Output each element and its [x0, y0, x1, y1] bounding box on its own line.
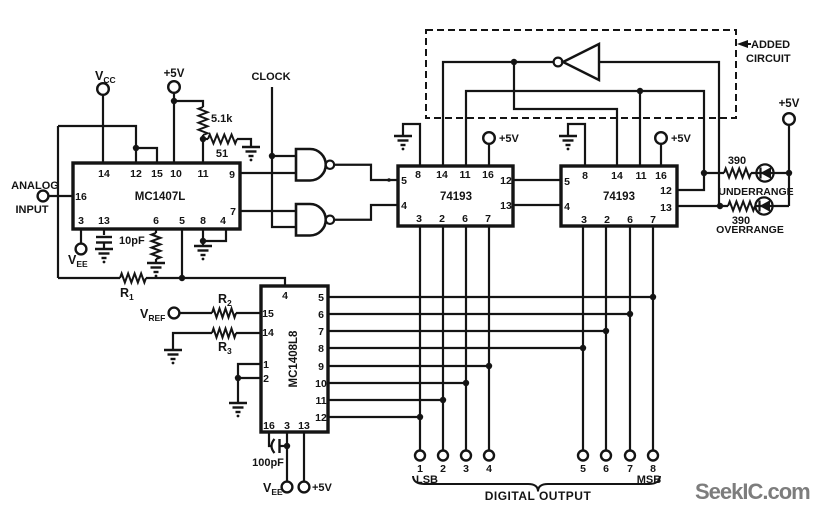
- svg-text:5: 5: [179, 215, 185, 227]
- wire U4 pin 13 row: [677, 205, 728, 207]
- svg-text:14: 14: [436, 169, 448, 181]
- wire inverter input net: [443, 62, 553, 166]
- svg-text:CIRCUIT: CIRCUIT: [746, 53, 791, 65]
- node pin 8: [200, 238, 206, 244]
- svg-text:5: 5: [401, 175, 407, 187]
- svg-text:390: 390: [728, 155, 746, 167]
- svg-text:7: 7: [650, 214, 656, 226]
- svg-text:7: 7: [485, 213, 491, 225]
- wire 390 to LED1: [751, 172, 789, 174]
- wire pin 1: [238, 364, 261, 378]
- wire +5V to 5.1k: [174, 101, 203, 107]
- wire U3 pin 13 to U4 pin 4: [513, 204, 561, 206]
- node bit 5: [580, 345, 586, 351]
- svg-text:2: 2: [604, 214, 610, 226]
- terminal output 7: [625, 451, 635, 461]
- wire NAND1 output: [335, 165, 398, 180]
- svg-text:13: 13: [298, 420, 310, 432]
- wire pin 5 down: [181, 229, 183, 278]
- DAC U2 MC1408L8 box: [261, 286, 328, 432]
- added circuit arrow: [737, 40, 748, 48]
- svg-text:16: 16: [263, 420, 275, 432]
- wire +5V to pin 10: [173, 93, 175, 163]
- svg-text:1: 1: [263, 359, 269, 371]
- svg-text:15: 15: [151, 168, 163, 180]
- node pins12/15: [133, 145, 139, 151]
- wire DAC output bit 5: [328, 347, 583, 349]
- svg-text:2: 2: [439, 213, 445, 225]
- svg-text:74193: 74193: [603, 191, 635, 203]
- node borrow/U4 pin 11: [637, 88, 643, 94]
- wire +5V to U3 pin 16: [488, 144, 490, 166]
- wire pin 3 to VEE: [80, 229, 82, 244]
- terminal output 2: [438, 451, 448, 461]
- wire pin 8 down: [202, 229, 204, 246]
- wire output column 1: [419, 226, 421, 450]
- wire DAC output bit 1: [328, 416, 420, 418]
- added circuit dashed box: [426, 30, 736, 118]
- wire ground to U4 pin 8: [568, 124, 585, 166]
- svg-text:3: 3: [416, 213, 422, 225]
- wire resistor to ground: [155, 259, 157, 263]
- node +5V branch: [171, 98, 177, 104]
- ground (pin 8): [194, 246, 212, 255]
- svg-text:100pF: 100pF: [252, 457, 284, 469]
- svg-text:51: 51: [216, 148, 228, 160]
- op-amp U1 MC1407L box: [73, 163, 240, 229]
- svg-text:+5V: +5V: [671, 133, 692, 145]
- svg-text:2: 2: [263, 373, 269, 385]
- svg-text:8: 8: [200, 215, 206, 227]
- svg-text:13: 13: [98, 215, 110, 227]
- svg-text:MC1407L: MC1407L: [135, 191, 186, 203]
- wire output column 4: [488, 226, 490, 450]
- wire underrange row: [704, 172, 724, 174]
- svg-text:12: 12: [660, 185, 672, 197]
- wire +5V rail: [788, 125, 790, 206]
- svg-text:+5V: +5V: [312, 482, 333, 494]
- svg-text:INPUT: INPUT: [16, 204, 49, 216]
- power terminal +5V (bottom): [299, 482, 310, 493]
- svg-text:6: 6: [462, 213, 468, 225]
- svg-text:9: 9: [229, 169, 235, 181]
- node overrange: [717, 203, 723, 209]
- svg-text:11: 11: [315, 395, 326, 407]
- node bit 4: [486, 363, 492, 369]
- resistor (pin 6): [152, 233, 161, 259]
- wire R1 to DAC pin 4: [146, 278, 285, 287]
- svg-text:5: 5: [580, 463, 586, 475]
- wire NAND2 output: [335, 205, 398, 220]
- svg-text:3: 3: [78, 215, 84, 227]
- svg-text:10: 10: [170, 168, 182, 180]
- terminal output 8: [648, 451, 658, 461]
- svg-text:15: 15: [262, 308, 274, 320]
- wire pin 8 to pin 4: [203, 229, 226, 241]
- node NAND1 output mark: [387, 178, 391, 182]
- wire 5.1k to pin 11: [202, 135, 204, 163]
- power terminal VEE (left): [76, 244, 87, 255]
- svg-text:16: 16: [482, 169, 494, 181]
- wire pin 13 to +5V: [303, 432, 305, 482]
- svg-text:6: 6: [318, 309, 324, 321]
- terminal output 4: [484, 451, 494, 461]
- svg-text:OVERRANGE: OVERRANGE: [716, 224, 784, 236]
- svg-text:9: 9: [318, 361, 324, 373]
- power terminal VCC: [97, 83, 109, 95]
- svg-text:UNDERRANGE: UNDERRANGE: [718, 186, 793, 198]
- svg-text:4: 4: [282, 290, 288, 302]
- node clock branch: [269, 153, 275, 159]
- svg-text:12: 12: [315, 412, 327, 424]
- svg-text:8: 8: [318, 343, 324, 355]
- svg-text:6: 6: [627, 214, 633, 226]
- svg-text:8: 8: [582, 170, 588, 182]
- wire U4 pin 12 up: [677, 173, 704, 190]
- wire U1 pin 7 to NAND2: [240, 210, 296, 212]
- svg-text:74193: 74193: [440, 191, 472, 203]
- node bit 2: [440, 397, 446, 403]
- svg-text:5: 5: [564, 176, 570, 188]
- ground (10pF): [95, 249, 113, 258]
- svg-text:7: 7: [318, 326, 324, 338]
- svg-text:13: 13: [660, 202, 672, 214]
- wire borrow net: [466, 91, 704, 173]
- inverter U5: [554, 58, 563, 67]
- capacitor C2 100pF: [272, 439, 275, 453]
- wire VCC to pin 14: [102, 95, 104, 163]
- svg-text:11: 11: [197, 168, 208, 180]
- node pin11/51 junction: [200, 136, 206, 142]
- power terminal +5V (U4): [655, 132, 667, 144]
- terminal output 3: [461, 451, 471, 461]
- ground (R3): [164, 350, 182, 359]
- wire pin 16 down: [269, 432, 271, 446]
- wire 51 to ground: [237, 139, 251, 147]
- svg-text:7: 7: [627, 463, 633, 475]
- node 100pF/pin3: [284, 443, 290, 449]
- svg-text:DIGITAL OUTPUT: DIGITAL OUTPUT: [485, 489, 592, 503]
- wire U3 pin 12 to U4 pin 5: [513, 179, 561, 181]
- wire +5V to U4 pin 16: [660, 144, 662, 166]
- wire output column 7: [629, 226, 631, 450]
- wire output column 6: [605, 226, 607, 450]
- power terminal +5V (top left): [168, 81, 180, 93]
- wire R1 left: [58, 277, 120, 279]
- svg-text:4: 4: [564, 201, 570, 213]
- svg-text:+5V: +5V: [779, 98, 800, 110]
- wire R2 to pin 15: [236, 312, 261, 314]
- counter U3 74193 box: [398, 166, 513, 226]
- node bit 6: [603, 328, 609, 334]
- brace digital output: [413, 476, 660, 492]
- wire pin 6 down: [155, 229, 157, 233]
- resistor R3: [212, 329, 236, 338]
- node LED1/+5V rail: [786, 170, 792, 176]
- wire 390 to LED2: [755, 205, 789, 207]
- ground (51 ohm): [242, 147, 260, 156]
- svg-text:12: 12: [130, 168, 142, 180]
- nand gate G2: [296, 204, 326, 236]
- ground (pin 6): [147, 263, 165, 272]
- svg-text:5.1k: 5.1k: [211, 113, 233, 125]
- power terminal +5V (right): [783, 113, 795, 125]
- svg-text:+5V: +5V: [499, 133, 520, 145]
- svg-text:14: 14: [98, 168, 110, 180]
- svg-text:2: 2: [440, 463, 446, 475]
- ground (U3 pin 8): [394, 136, 412, 145]
- terminal output 1: [415, 451, 425, 461]
- svg-text:MC1408L8: MC1408L8: [288, 330, 300, 387]
- svg-text:3: 3: [284, 420, 290, 432]
- led OVERRANGE: [755, 197, 772, 214]
- terminal output 6: [601, 451, 611, 461]
- wire pins 1-2 to ground: [237, 378, 239, 403]
- terminal output 5: [578, 451, 588, 461]
- node bit 3: [463, 380, 469, 386]
- wire DAC output bit 7: [328, 313, 630, 315]
- svg-text:4: 4: [486, 463, 492, 475]
- wire clock to NAND1: [272, 155, 296, 157]
- wire U1 pin 9 to NAND1: [240, 172, 296, 174]
- ground (U4 pin 8): [559, 136, 577, 145]
- resistor 5.1k: [199, 107, 208, 135]
- nand gate G1: [296, 149, 326, 181]
- analog input terminal: [38, 191, 49, 202]
- svg-text:+5V: +5V: [164, 68, 185, 80]
- svg-text:16: 16: [655, 170, 667, 182]
- wire R3 to pin 14: [236, 332, 261, 334]
- wire DAC output bit 2: [328, 399, 443, 401]
- wire CLOCK vertical: [272, 87, 296, 227]
- svg-text:3: 3: [581, 214, 587, 226]
- resistor 390 (overrange): [728, 202, 755, 211]
- node pin5/R1: [179, 275, 185, 281]
- svg-text:ADDED: ADDED: [751, 39, 790, 51]
- wire DAC output bit 6: [328, 330, 606, 332]
- svg-text:16: 16: [75, 191, 87, 203]
- node inverter input: [511, 59, 517, 65]
- node bit 7: [627, 311, 633, 317]
- svg-text:13: 13: [500, 200, 512, 212]
- counter U4 74193 box: [561, 166, 677, 226]
- wire ground to U3 pin 8: [403, 124, 420, 166]
- svg-text:4: 4: [220, 215, 226, 227]
- wire output column 3: [465, 226, 467, 450]
- wire pins 12/15 net: [58, 126, 136, 163]
- capacitor C1 10pF: [96, 237, 112, 243]
- wire VREF to R2: [179, 312, 212, 314]
- wire to pin 15: [136, 148, 157, 163]
- wire ground to R3: [173, 333, 212, 350]
- svg-text:10pF: 10pF: [119, 235, 145, 247]
- wire inverter output: [599, 62, 719, 206]
- svg-text:11: 11: [459, 169, 470, 181]
- svg-text:3: 3: [463, 463, 469, 475]
- node bit 8: [650, 294, 656, 300]
- power terminal +5V (U3): [483, 132, 495, 144]
- wire carry net: [514, 62, 617, 166]
- led UNDERRANGE: [756, 164, 773, 181]
- svg-text:14: 14: [262, 327, 274, 339]
- svg-text:7: 7: [230, 206, 236, 218]
- wire output column 5: [582, 226, 584, 450]
- svg-text:6: 6: [603, 463, 609, 475]
- svg-text:CLOCK: CLOCK: [251, 71, 290, 83]
- svg-text:8: 8: [415, 169, 421, 181]
- node underrange: [701, 170, 707, 176]
- svg-text:5: 5: [318, 292, 324, 304]
- svg-text:6: 6: [153, 215, 159, 227]
- svg-text:12: 12: [500, 175, 512, 187]
- node pins 1-2: [235, 375, 241, 381]
- wire analog input to pin 16: [48, 195, 73, 197]
- resistor R2: [212, 309, 236, 318]
- svg-text:ANALOG: ANALOG: [11, 180, 59, 192]
- svg-text:SeekIC.com: SeekIC.com: [695, 479, 810, 504]
- svg-text:11: 11: [635, 170, 646, 182]
- svg-text:4: 4: [401, 200, 407, 212]
- ground (pins 1-2): [229, 403, 247, 412]
- resistor 51: [203, 138, 208, 140]
- wire DAC output bit 8: [328, 296, 653, 298]
- wire pin 3 to VEE: [286, 432, 288, 482]
- wire pin 13 down: [103, 229, 105, 235]
- wire DAC output bit 4: [328, 365, 489, 367]
- svg-text:10: 10: [315, 378, 327, 390]
- power terminal VEE (bottom): [282, 482, 293, 493]
- wire output column 8: [652, 226, 654, 450]
- resistor R1: [120, 274, 146, 283]
- wire DAC output bit 3: [328, 382, 466, 384]
- wire pin 2: [238, 377, 261, 379]
- wire output column 2: [442, 226, 444, 450]
- wire left feedback vertical: [57, 126, 59, 278]
- node bit 1: [417, 414, 423, 420]
- wire to U4 pin 11: [639, 91, 641, 166]
- resistor 390 (underrange): [724, 169, 751, 178]
- svg-text:14: 14: [611, 170, 623, 182]
